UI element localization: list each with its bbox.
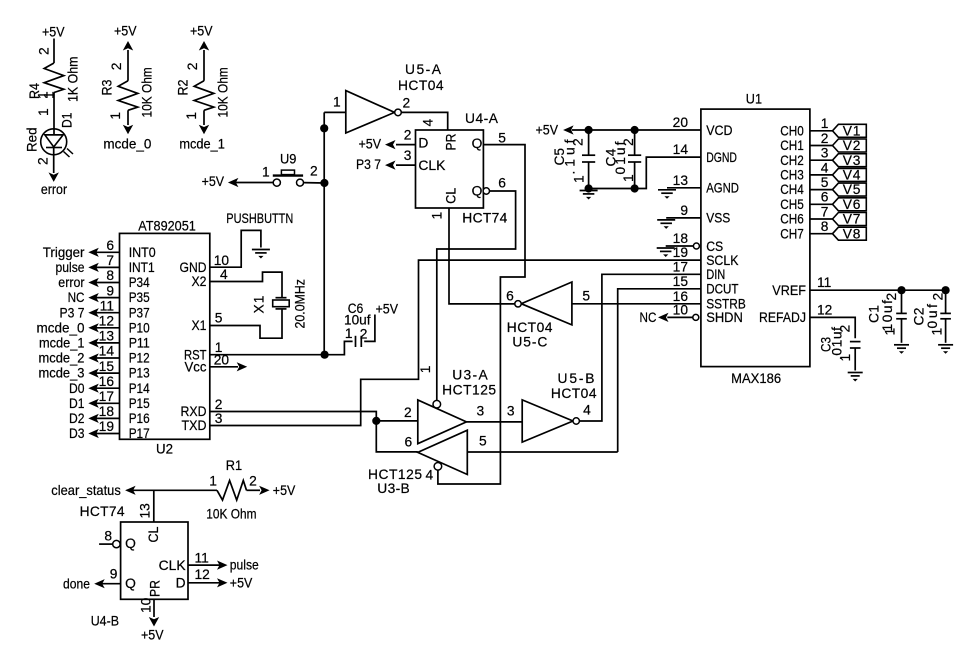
net arrow +5V (D) [385,140,396,149]
pin 2 wire CH1 [810,145,833,147]
net flag V5 [833,183,867,196]
svg-text:D3: D3 [69,426,85,441]
net arrow mcde_3 [88,369,99,378]
svg-text:P11: P11 [129,336,150,351]
net flag V8 [833,227,867,240]
svg-text:D1: D1 [60,113,75,129]
svg-text:16: 16 [99,374,115,389]
net arrow error [49,172,59,182]
svg-text:X1: X1 [252,296,267,314]
svg-text:R2: R2 [176,80,191,96]
svg-text:mcde_0: mcde_0 [103,137,151,152]
capacitor C2 [945,290,947,313]
junction RST [321,351,329,359]
svg-text:Q: Q [125,576,136,591]
svg-text:4: 4 [426,468,434,483]
svg-text:VSS: VSS [706,211,730,226]
svg-text:CH2: CH2 [780,153,804,168]
svg-text:CH6: CH6 [780,212,804,227]
svg-text:13: 13 [138,503,153,519]
svg-text:11: 11 [100,298,114,313]
svg-text:3: 3 [821,146,829,161]
svg-text:2: 2 [404,405,412,420]
svg-text:pulse: pulse [56,260,85,275]
wire Qbar net [437,191,516,400]
wire DCUT net [618,289,701,452]
svg-text:6: 6 [821,190,829,205]
wire GND net [210,230,261,267]
svg-text:+5V: +5V [273,483,296,498]
svg-text:11: 11 [817,275,831,290]
svg-text:U5-C: U5-C [512,335,547,350]
svg-text:2: 2 [109,63,124,71]
svg-text:9: 9 [680,203,688,218]
net arrow error [88,278,99,287]
svg-text:X1: X1 [192,318,207,333]
pin 14 wire P12 [96,357,120,359]
svg-text:P34: P34 [129,275,150,290]
svg-text:P13: P13 [129,366,150,381]
svg-text:15: 15 [99,359,115,374]
svg-text:+5V: +5V [202,174,225,189]
svg-text:12: 12 [195,567,210,582]
bubble SHDN [693,314,699,320]
net flag V3 [833,154,867,167]
svg-text:HCT04: HCT04 [398,78,444,93]
svg-text:HCT74: HCT74 [462,211,507,226]
inverter U5-A [346,91,395,133]
pin 13 wire P11 [96,342,120,344]
svg-text:AT892051: AT892051 [138,219,196,234]
svg-text:mcde_0: mcde_0 [37,320,85,335]
svg-text:2: 2 [36,157,51,165]
svg-text:4: 4 [421,119,436,127]
ground (pushbutton) [252,249,270,251]
svg-text:U5-B: U5-B [558,371,595,386]
svg-text:2: 2 [249,474,257,489]
junction [320,179,328,187]
svg-text:CH3: CH3 [780,168,804,183]
svg-text:P10: P10 [129,320,150,335]
wire CS [666,245,694,247]
svg-text:INT1: INT1 [129,260,155,275]
svg-text:P15: P15 [129,396,150,411]
net arrow +5V (PR) [149,617,159,627]
svg-text:2: 2 [821,131,829,146]
svg-text:2: 2 [185,63,200,71]
bubble U5-B out [573,418,579,424]
svg-text:mcde_1: mcde_1 [39,336,85,351]
pin 17 wire P15 [96,402,120,404]
pin 12 wire P10 [96,327,120,329]
svg-text:2: 2 [403,96,411,111]
net arrow mcde_1 [88,338,99,347]
bubble U4-B Qbar [113,540,120,547]
wire cap rail to DGND [589,157,701,188]
svg-text:1: 1 [430,212,445,220]
svg-text:SCLK: SCLK [706,253,739,268]
svg-text:Red: Red [25,128,40,153]
svg-text:10K Ohm: 10K Ohm [140,67,155,117]
svg-text:mcde_2: mcde_2 [39,351,85,366]
junction [631,184,639,192]
svg-text:6: 6 [506,289,514,304]
pin 16 wire P14 [96,387,120,389]
svg-text:1: 1 [883,328,898,336]
svg-text:1: 1 [345,326,353,341]
svg-text:+5V: +5V [42,25,65,40]
buffer U3-A [418,400,467,444]
svg-text:V8: V8 [843,226,861,241]
svg-text:REFADJ: REFADJ [759,310,806,325]
svg-text:CH7: CH7 [780,226,804,241]
svg-text:10: 10 [673,302,689,317]
svg-text:2: 2 [310,164,318,179]
net flag V4 [833,168,867,181]
pin 12 wire D [188,582,220,584]
bubble U4-A Qbar [483,188,489,194]
pin 6 wire CH5 [810,203,833,205]
wire [247,489,261,491]
svg-text:10: 10 [214,253,230,268]
net arrow NC [88,293,99,302]
svg-text:1: 1 [36,108,51,116]
pin 15 wire P13 [96,372,120,374]
net arrow Vcc [237,362,248,371]
svg-text:U1: U1 [746,92,762,107]
svg-text:V5: V5 [843,182,861,197]
LED D1 [41,129,67,155]
svg-text:+5V: +5V [536,123,559,138]
svg-text:P12: P12 [129,351,150,366]
svg-text:SHDN: SHDN [706,310,743,325]
svg-text:mcde_3: mcde_3 [39,366,85,381]
net arrow pulse [217,561,228,570]
inverter U5-B [522,400,573,442]
svg-text:2: 2 [571,138,586,146]
svg-text:P16: P16 [129,411,150,426]
svg-text:19: 19 [673,245,689,260]
svg-text:clear_status: clear_status [51,483,121,498]
svg-text:10K Ohm: 10K Ohm [216,67,231,117]
wire [203,110,205,125]
svg-text:3: 3 [215,411,223,426]
flip-flop U4-B box [121,522,188,599]
svg-text:4: 4 [220,267,228,282]
net arrow up R2 [199,41,209,51]
net arrow mcde_2 [88,353,99,362]
wire SSTRB net [572,303,701,305]
wire [324,111,346,113]
svg-text:+5V: +5V [230,575,253,590]
svg-text:2: 2 [621,138,636,146]
svg-text:Trigger: Trigger [43,245,85,260]
svg-text:P35: P35 [129,290,150,305]
svg-text:19: 19 [99,419,115,434]
svg-text:1: 1 [108,112,123,120]
wire REFADJ [810,317,855,338]
svg-text:9: 9 [110,567,118,582]
svg-text:13: 13 [673,173,689,188]
wire X1 net [210,309,282,338]
ic U1 MAX186 box [701,109,810,367]
svg-text:10uf: 10uf [880,300,895,332]
pin 5 wire CH4 [810,189,833,191]
svg-text:TXD: TXD [182,418,207,433]
bubble U5-C out [515,301,521,307]
svg-text:error: error [41,182,68,197]
svg-text:P17: P17 [129,426,150,441]
wire [127,110,129,125]
buffer U3-B [418,430,468,474]
svg-text:+5V: +5V [376,302,399,317]
pin 9 wire P35 [96,297,120,299]
pin 11 wire CLK [188,564,220,566]
net arrow +5V (D U4-B) [217,578,228,587]
svg-text:1: 1 [572,175,587,183]
bubble CS [693,243,699,249]
resistor R3 [118,81,138,111]
ground (C1) [894,344,909,346]
svg-text:7: 7 [106,253,114,268]
svg-text:2: 2 [884,293,899,301]
pin 7 wire INT1 [96,266,120,268]
svg-text:V7: V7 [843,212,861,227]
pin 19 wire P17 [96,433,120,435]
svg-text:14: 14 [673,142,689,157]
svg-text:1: 1 [209,474,217,489]
net flag V1 [833,124,867,137]
svg-text:V4: V4 [843,168,861,183]
svg-text:V6: V6 [843,197,861,212]
svg-text:1: 1 [262,165,270,180]
inverter U5-C [521,282,572,325]
svg-text:U3-B: U3-B [377,481,409,496]
svg-text:2: 2 [360,327,368,342]
net arrow D1 [88,399,99,408]
svg-text:CLK: CLK [418,158,446,173]
pin 8 wire P34 [96,282,120,284]
pin 10 wire PR [153,599,155,617]
crystal X1 [276,297,287,299]
wire Q net [438,145,525,484]
svg-text:1: 1 [418,366,433,374]
svg-text:7: 7 [821,204,829,219]
ground (C5) [580,190,598,192]
net arrow P3 7 [385,161,396,170]
net arrow clear_status [125,486,136,495]
svg-text:D: D [176,576,186,591]
net arrow Trigger [88,248,99,257]
svg-text:2: 2 [404,128,412,143]
wire [304,182,325,184]
svg-text:1: 1 [838,354,853,362]
svg-text:6: 6 [106,238,114,253]
wire C6 to +5V [364,315,375,342]
svg-text:5: 5 [215,311,223,326]
capacitor C6 [355,336,357,347]
wire VDD [572,129,701,131]
svg-text:PR: PR [444,133,459,150]
svg-text:12: 12 [99,314,114,329]
wire VREF [810,289,946,291]
svg-text:D1: D1 [69,396,85,411]
ground (C2) [938,344,953,346]
wire [376,420,418,422]
svg-text:NC: NC [640,310,657,325]
svg-text:VREF: VREF [772,283,806,298]
svg-text:6: 6 [498,176,506,191]
svg-text:CLK: CLK [159,558,187,573]
svg-text:D2: D2 [69,411,85,426]
pin 11 wire P37 [96,312,120,314]
net arrow up R3 [123,41,133,51]
capacitor C3 [850,341,861,343]
svg-text:20: 20 [673,115,689,130]
svg-text:3: 3 [507,404,515,419]
svg-text:DGND: DGND [706,150,737,165]
svg-text:2: 2 [215,397,223,412]
svg-text:10: 10 [139,597,154,613]
svg-text:U4-B: U4-B [91,614,119,629]
svg-text:DIN: DIN [706,267,725,282]
resistor R2 [194,81,214,111]
svg-text:14: 14 [99,344,115,359]
bubble U3-A ctl [433,400,441,408]
wire CL U4-B [153,490,155,522]
bubble U5-A out [395,109,402,116]
svg-text:MAX186: MAX186 [731,371,781,386]
pushbutton U9 [273,179,280,186]
svg-text:+5V: +5V [190,24,213,39]
svg-text:U5-A: U5-A [405,62,442,77]
net arrow +5V (R1) [259,486,270,495]
ground (AGND) [658,189,676,191]
wire Vcc [210,366,238,368]
svg-text:18: 18 [673,231,689,246]
junction [585,126,593,134]
svg-text:10K Ohm: 10K Ohm [206,507,256,522]
pin 4 wire CH3 [810,174,833,176]
junction [897,286,905,294]
wire [53,39,55,64]
svg-text:11: 11 [195,551,209,566]
svg-text:20.0MHz: 20.0MHz [293,279,308,329]
net flag V7 [833,213,867,226]
wire [376,421,418,452]
svg-text:Q: Q [472,136,483,151]
svg-text:1: 1 [821,116,829,131]
svg-text:5: 5 [582,289,590,304]
svg-text:P3 7: P3 7 [60,305,85,320]
pin 8 wire CH7 [810,233,833,235]
svg-text:15: 15 [673,274,689,289]
pin 6 wire INT0 [96,251,120,253]
svg-text:CL: CL [444,187,459,203]
svg-text:AGND: AGND [706,181,739,196]
wire SHDN [667,316,693,318]
pin 2 wire D [396,144,416,146]
svg-text:3: 3 [404,148,412,163]
svg-text:12: 12 [817,302,832,317]
svg-text:1: 1 [184,112,199,120]
svg-text:D: D [418,136,428,151]
svg-text:20: 20 [214,352,230,367]
net arrow mcde_0 [123,125,133,135]
wire X2 net [210,272,282,298]
net arrow mcde_0 [88,323,99,332]
svg-text:Vcc: Vcc [185,359,207,374]
svg-text:HCT04: HCT04 [507,320,553,335]
svg-text:GND: GND [180,260,207,275]
junction [320,124,328,132]
wire U3-B in [467,451,617,453]
wire [236,182,273,184]
svg-text:P14: P14 [129,381,150,396]
svg-text:+5V: +5V [141,627,164,642]
pin 1 wire CH0 [810,130,833,132]
net flag V2 [833,139,867,152]
svg-text:U2: U2 [156,442,173,457]
net arrow P3 7 [88,308,99,317]
svg-text:4: 4 [583,403,591,418]
svg-text:mcde_1: mcde_1 [179,137,225,152]
svg-text:HCT125: HCT125 [442,383,496,398]
net arrow pulse [88,263,99,272]
svg-text:V3: V3 [843,153,861,168]
junction [585,184,593,192]
wire to C6 [325,341,353,354]
svg-text:PUSHBUTTN: PUSHBUTTN [226,211,293,226]
svg-text:V1: V1 [843,123,861,138]
svg-text:1: 1 [333,95,341,110]
wire [127,50,129,81]
ic U2 AT892051 box [120,233,210,439]
wire DIN net [579,274,701,421]
svg-text:2: 2 [838,325,853,333]
pin 3 wire CLK [396,164,416,166]
svg-text:error: error [58,275,85,290]
svg-text:Q: Q [125,536,136,551]
pin 3 wire CH2 [810,159,833,161]
resistor R1 [217,481,247,501]
pin 7 wire CH6 [810,218,833,220]
wire RST [210,354,325,356]
wire [203,50,205,81]
wire [133,489,217,491]
wire RST rail [323,112,325,354]
svg-text:5: 5 [479,434,487,449]
svg-text:2: 2 [931,293,946,301]
wire CL net [449,208,515,304]
capacitor C5 [588,130,590,155]
svg-text:PR: PR [148,580,163,597]
pin 18 wire P16 [96,417,120,419]
svg-text:1K Ohm: 1K Ohm [66,57,81,103]
svg-text:CH1: CH1 [780,138,804,153]
svg-text:R3: R3 [100,79,115,95]
svg-text:5: 5 [498,131,506,146]
ground (C3) [848,372,863,374]
net arrow +5V (VDD) [563,125,574,134]
svg-text:Q: Q [472,183,483,198]
net arrow done [94,579,105,588]
capacitor C1 [901,290,903,313]
svg-text:6: 6 [405,435,413,450]
svg-text:8: 8 [821,219,829,234]
svg-text:18: 18 [99,404,115,419]
svg-text:DCUT: DCUT [706,282,739,297]
